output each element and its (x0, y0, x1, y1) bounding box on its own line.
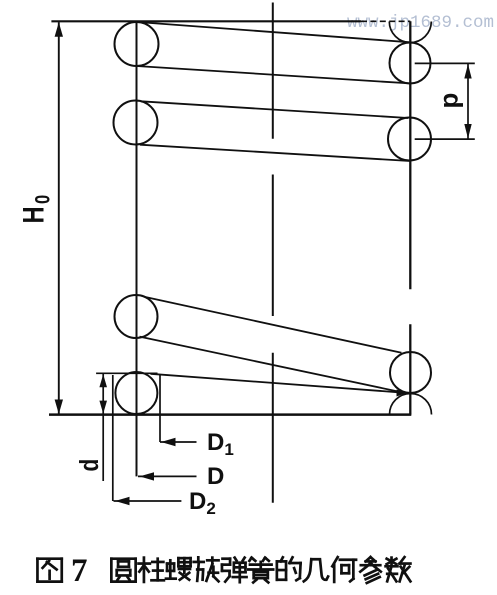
svg-text:7: 7 (71, 553, 88, 589)
svg-text:p: p (434, 93, 464, 109)
svg-text:D: D (207, 463, 224, 490)
svg-text:d: d (75, 459, 104, 472)
svg-text:www.jp1689.com: www.jp1689.com (347, 13, 494, 33)
